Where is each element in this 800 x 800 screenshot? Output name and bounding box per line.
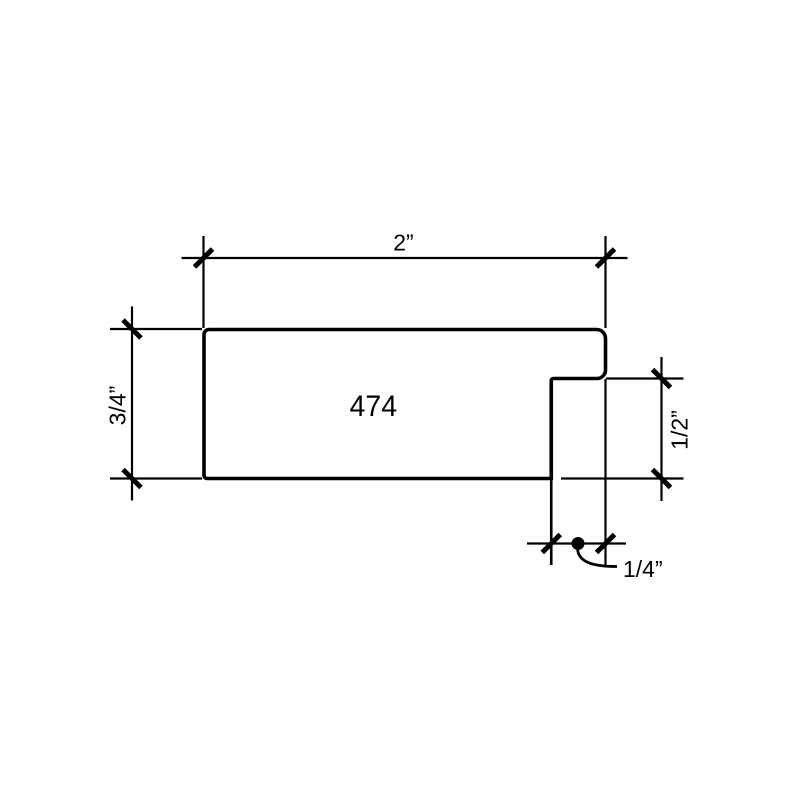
moulding profile outline 474 [204, 330, 606, 479]
dimension 1/4in: right extension line [604, 379, 606, 566]
dimension 2in: dimension line [182, 257, 628, 259]
dimension 3/4in: top tick [123, 320, 141, 338]
svg-text:1/4”: 1/4” [623, 556, 663, 582]
dimension 1/4in: reference dot [572, 537, 585, 550]
dimension 1/4in: right tick [597, 535, 615, 553]
dimension 3/4in: bottom extension line [110, 477, 202, 479]
dimension 3/4in: top extension line [110, 328, 202, 330]
dimension 1/2in: dimension line [660, 357, 662, 501]
dimension 1/2in: top tick [653, 370, 671, 388]
dimension 1/2in: bottom tick [653, 470, 671, 488]
dimension 1/4in: dimension line [527, 542, 626, 544]
dimension 1/2in: bottom extension line [561, 477, 684, 479]
svg-text:1/2”: 1/2” [667, 410, 693, 450]
dimension 2in: left extension line [202, 236, 204, 328]
dimension 1/4in: leader curve [578, 549, 618, 567]
dimension 2in: right extension line [604, 236, 606, 328]
dimension 3/4in: dimension line [131, 307, 133, 501]
dimension 2in: left tick [195, 249, 213, 267]
svg-text:474: 474 [350, 390, 398, 423]
dimension 2in: right tick [597, 249, 615, 267]
svg-text:3/4”: 3/4” [105, 386, 131, 426]
svg-text:2”: 2” [393, 230, 413, 256]
dimension 3/4in: bottom tick [123, 470, 141, 488]
dimension 1/4in: left extension line [550, 479, 553, 566]
dimension 1/2in: top extension line [606, 377, 684, 379]
dimension 1/4in: left tick [542, 535, 560, 553]
